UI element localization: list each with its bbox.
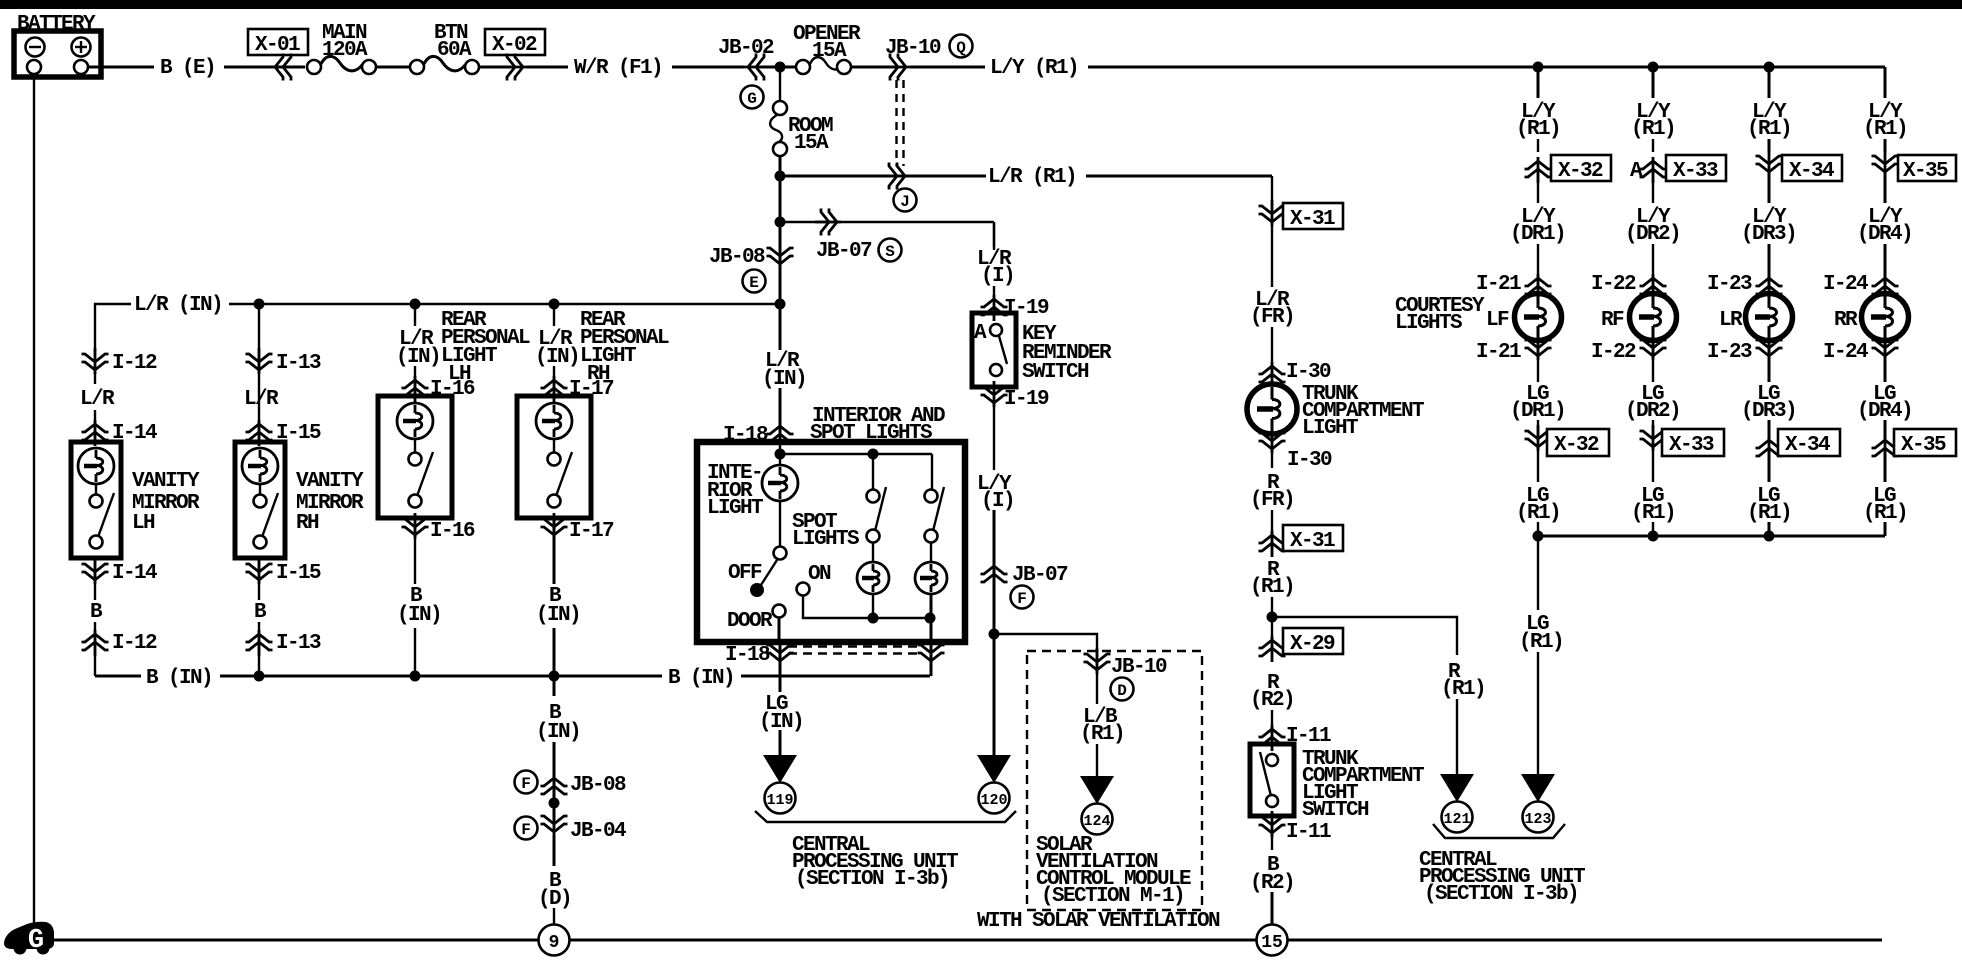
svg-text:F: F	[521, 821, 531, 839]
wire to solar module	[994, 634, 1097, 777]
svg-text:X-33: X-33	[1669, 434, 1714, 457]
svg-text:LIGHTS: LIGHTS	[792, 528, 859, 551]
vanity mirror LH branch	[80, 348, 157, 446]
wire R (R2)	[1250, 672, 1294, 744]
svg-text:LH: LH	[132, 512, 155, 535]
spot light 2	[915, 454, 947, 676]
svg-text:(R1): (R1)	[1080, 723, 1124, 746]
svg-text:RR: RR	[1834, 309, 1858, 332]
svg-text:X-29: X-29	[1290, 633, 1335, 656]
svg-text:X-32: X-32	[1554, 434, 1599, 457]
courtesy lights label	[1395, 295, 1485, 335]
rear personal RH lower chain	[536, 513, 614, 676]
svg-text:LF: LF	[1486, 309, 1509, 332]
wire to pin 120	[977, 634, 1011, 814]
svg-text:SWITCH: SWITCH	[1302, 799, 1369, 822]
svg-text:ON: ON	[808, 563, 831, 586]
connector I-30 upper	[1259, 361, 1332, 388]
svg-text:X-01: X-01	[255, 34, 300, 57]
svg-text:VANITY: VANITY	[296, 470, 364, 493]
vanity mirror RH	[235, 442, 364, 558]
node solar branch junction	[989, 629, 1000, 640]
svg-text:(I): (I)	[981, 265, 1014, 288]
wire B (IN) bus	[95, 667, 930, 690]
trunk compartment light	[1247, 383, 1424, 440]
svg-text:LIGHTS: LIGHTS	[1395, 312, 1462, 335]
svg-text:X-33: X-33	[1673, 160, 1718, 183]
svg-text:120: 120	[980, 792, 1007, 809]
svg-text:(D): (D)	[538, 888, 571, 911]
connector JB-02	[718, 37, 796, 81]
vanity LH lower chain	[82, 558, 158, 676]
battery	[14, 13, 101, 77]
courtesy light RF column	[1591, 101, 1726, 536]
svg-text:(SECTION I-3b): (SECTION I-3b)	[795, 868, 949, 891]
wire R (FR)	[1250, 472, 1294, 556]
courtesy light LR column	[1707, 101, 1842, 536]
node L/R(IN) junction RH vanity	[254, 299, 265, 310]
connector JB-10 D	[1084, 648, 1168, 701]
connector I-11 lower	[1259, 811, 1332, 850]
svg-text:D: D	[1117, 682, 1127, 700]
rear personal LH lower chain	[397, 513, 475, 676]
node L/R(IN) junction rear LH	[410, 299, 421, 310]
svg-text:(IN): (IN)	[762, 368, 806, 391]
svg-text:I-21: I-21	[1476, 273, 1521, 296]
svg-text:(DR1): (DR1)	[1510, 223, 1565, 246]
svg-text:(R2): (R2)	[1250, 689, 1294, 712]
fuse OPENER 15A	[793, 23, 894, 74]
wire LG (R1) to pin 123	[1519, 536, 1563, 833]
svg-text:I-24: I-24	[1823, 273, 1868, 296]
svg-text:VANITY: VANITY	[132, 470, 200, 493]
svg-text:15A: 15A	[794, 132, 829, 155]
connector I-30 lower	[1259, 427, 1333, 472]
svg-text:(DR3): (DR3)	[1741, 223, 1796, 246]
svg-text:SWITCH: SWITCH	[1022, 361, 1089, 384]
wire L/R (IN) label to interior box	[762, 304, 806, 442]
svg-text:(R1): (R1)	[1747, 502, 1791, 525]
connector X-29	[1259, 628, 1344, 662]
svg-text:60A: 60A	[437, 39, 472, 62]
svg-text:X-35: X-35	[1901, 434, 1946, 457]
svg-text:(FR): (FR)	[1250, 306, 1294, 329]
svg-text:X-34: X-34	[1789, 160, 1834, 183]
svg-text:I-23: I-23	[1707, 341, 1752, 364]
interior light switch OFF/ON/DOOR	[727, 501, 936, 642]
svg-text:JB-04: JB-04	[570, 820, 626, 843]
wire L/B (R1) to pin 124	[1080, 706, 1124, 835]
svg-text:I-30: I-30	[1286, 361, 1331, 384]
node ground 9	[539, 925, 570, 956]
svg-text:(DR2): (DR2)	[1625, 400, 1680, 423]
svg-text:I-30: I-30	[1287, 449, 1332, 472]
central processing unit text 2	[1419, 849, 1585, 906]
svg-text:I-16: I-16	[430, 520, 475, 543]
connector X-31 upper	[1259, 200, 1344, 287]
svg-text:(R1): (R1)	[1441, 678, 1485, 701]
spot light 1	[857, 454, 889, 618]
connector I-18 upper	[723, 422, 794, 448]
svg-text:121: 121	[1443, 811, 1470, 828]
svg-text:X-32: X-32	[1558, 160, 1603, 183]
svg-text:(R2): (R2)	[1250, 872, 1294, 895]
connector JB-08 E	[709, 222, 794, 304]
brace CPU 1	[755, 811, 1016, 822]
ground bus	[50, 939, 1882, 942]
fusible link BTN 60A	[410, 22, 479, 74]
svg-text:(FR): (FR)	[1250, 489, 1294, 512]
rear personal light RH branch	[535, 304, 669, 402]
svg-text:I-13: I-13	[276, 632, 321, 655]
svg-text:(DR2): (DR2)	[1625, 223, 1680, 246]
svg-text:X-31: X-31	[1290, 530, 1335, 553]
svg-text:L/R: L/R	[80, 388, 115, 411]
svg-text:G: G	[28, 926, 44, 956]
wire	[376, 66, 410, 69]
svg-text:I-13: I-13	[276, 352, 321, 375]
interior and spot lights unit	[697, 405, 965, 642]
ground symbol G (body ground car)	[4, 922, 54, 956]
svg-text:I-14: I-14	[112, 562, 157, 585]
svg-text:Q: Q	[956, 39, 966, 57]
interior light bulb	[707, 442, 932, 520]
courtesy light RR column	[1823, 101, 1956, 525]
svg-text:(R1): (R1)	[1631, 118, 1675, 141]
svg-text:JB-08: JB-08	[709, 246, 765, 269]
wire L/R (R1)	[780, 163, 1272, 212]
svg-text:JB-10: JB-10	[1111, 656, 1167, 679]
svg-text:OFF: OFF	[728, 562, 762, 585]
svg-text:(R1): (R1)	[1863, 118, 1907, 141]
wire B (R2)	[1250, 854, 1294, 925]
svg-text:WITH SOLAR VENTILATION: WITH SOLAR VENTILATION	[977, 910, 1220, 933]
svg-text:I-23: I-23	[1707, 273, 1752, 296]
connector JB-04 F	[515, 810, 627, 843]
svg-text:(R1): (R1)	[1250, 576, 1294, 599]
connector JB-08 F	[515, 771, 627, 801]
svg-text:(R1): (R1)	[1863, 502, 1907, 525]
svg-text:JB-07: JB-07	[1012, 564, 1068, 587]
connector JB-10 Q	[884, 35, 973, 167]
svg-text:L/R (R1): L/R (R1)	[988, 166, 1076, 189]
fusible link MAIN 120A	[307, 22, 376, 74]
vanity RH lower chain	[246, 558, 322, 676]
svg-text:X-31: X-31	[1290, 208, 1335, 231]
wire W/R (F1)	[527, 57, 744, 80]
svg-text:I-11: I-11	[1286, 821, 1331, 844]
svg-text:JB-02: JB-02	[718, 37, 774, 60]
svg-text:LIGHT: LIGHT	[707, 497, 763, 520]
wire LG (IN) to pin 119	[759, 693, 803, 814]
svg-text:RH: RH	[296, 512, 319, 535]
svg-text:I-12: I-12	[112, 352, 157, 375]
svg-text:(DR3): (DR3)	[1741, 400, 1796, 423]
svg-text:(R1): (R1)	[1631, 502, 1675, 525]
svg-text:L/R: L/R	[244, 388, 279, 411]
node L/R(IN) junction rear RH	[549, 299, 560, 310]
wire LG (R1) bus	[1533, 531, 1886, 542]
svg-text:X-34: X-34	[1785, 434, 1830, 457]
svg-text:(IN): (IN)	[535, 346, 579, 369]
wire L/R (IN) bus	[95, 294, 786, 352]
wire L/Y (R1) top bus	[910, 57, 1885, 80]
svg-text:I-22: I-22	[1591, 273, 1636, 296]
node X-29 junction	[1267, 612, 1278, 623]
wire trunk branch from L/R(R1)	[1271, 176, 1273, 206]
svg-text:(SECTION I-3b): (SECTION I-3b)	[1424, 883, 1578, 906]
vanity mirror RH branch	[244, 304, 321, 446]
svg-text:I-22: I-22	[1591, 341, 1636, 364]
wire B (D)	[538, 836, 571, 924]
connector X-01	[248, 29, 308, 81]
solar ventilation control module text	[1036, 834, 1191, 908]
svg-text:JB-10: JB-10	[885, 37, 941, 60]
svg-text:15: 15	[1261, 933, 1283, 953]
svg-text:L/Y (R1): L/Y (R1)	[990, 57, 1078, 80]
svg-text:B (E): B (E)	[160, 57, 215, 80]
svg-text:F: F	[1017, 590, 1027, 608]
svg-text:I-12: I-12	[112, 632, 157, 655]
connector JB-07 F	[981, 562, 1069, 609]
solar module dashed box	[1027, 651, 1202, 910]
svg-text:9: 9	[549, 933, 560, 953]
svg-text:(R1): (R1)	[1516, 502, 1560, 525]
vanity mirror LH	[71, 442, 200, 558]
courtesy light LF column	[1476, 101, 1611, 536]
svg-text:(SECTION M-1): (SECTION M-1)	[1041, 885, 1184, 908]
svg-text:120A: 120A	[322, 39, 368, 62]
connector I-18 lower pair	[725, 639, 945, 692]
svg-text:(IN): (IN)	[536, 604, 580, 627]
wire JB-07 S row	[775, 176, 995, 263]
trunk compartment light switch	[1250, 744, 1424, 822]
svg-text:(R1): (R1)	[1516, 118, 1560, 141]
central processing unit text	[792, 834, 958, 891]
svg-text:(DR4): (DR4)	[1857, 400, 1912, 423]
svg-text:I-21: I-21	[1476, 341, 1521, 364]
svg-text:X-35: X-35	[1903, 160, 1948, 183]
spot lights	[792, 511, 859, 551]
svg-text:(DR4): (DR4)	[1857, 223, 1912, 246]
svg-text:(R1): (R1)	[1519, 631, 1563, 654]
connector I-11 upper	[1259, 725, 1332, 751]
svg-text:S: S	[885, 243, 895, 261]
svg-text:119: 119	[766, 792, 793, 809]
svg-text:(IN): (IN)	[396, 346, 440, 369]
svg-text:(I): (I)	[981, 490, 1014, 513]
rear personal light LH branch	[396, 304, 530, 402]
courtesy lights feed branches	[1533, 62, 1886, 537]
svg-text:I-15: I-15	[276, 562, 321, 585]
svg-text:LR: LR	[1719, 309, 1743, 332]
key reminder branch wire L/R (I)	[977, 222, 1049, 321]
rear personal light LH	[378, 396, 452, 518]
svg-text:LIGHT: LIGHT	[1302, 417, 1358, 440]
wire battery negative to ground	[33, 74, 35, 924]
node fuse junction	[775, 62, 786, 73]
node JB junction	[549, 798, 560, 809]
wire L/Y (I)	[977, 473, 1014, 634]
svg-text:I-18: I-18	[725, 644, 770, 667]
connector X-31 lower	[1259, 525, 1344, 557]
svg-text:(IN): (IN)	[536, 721, 580, 744]
svg-text:I-24: I-24	[1823, 341, 1868, 364]
svg-text:B (IN): B (IN)	[668, 667, 734, 690]
svg-text:E: E	[749, 274, 759, 292]
connector I-19 lower	[981, 381, 1050, 470]
svg-text:L/R (IN): L/R (IN)	[134, 294, 222, 317]
svg-text:B (IN): B (IN)	[146, 667, 212, 690]
brace CPU 2	[1433, 824, 1565, 838]
fuse ROOM 15A	[741, 67, 834, 176]
svg-text:I-17: I-17	[569, 520, 614, 543]
svg-text:(DR1): (DR1)	[1510, 400, 1565, 423]
key reminder switch	[972, 313, 1112, 387]
wire B (IN) down chain	[536, 676, 580, 820]
svg-text:I-19: I-19	[1004, 388, 1049, 411]
svg-text:W/R (F1): W/R (F1)	[574, 57, 662, 80]
svg-text:F: F	[521, 775, 531, 793]
svg-text:RF: RF	[1601, 309, 1624, 332]
svg-text:J: J	[900, 193, 910, 211]
svg-text:124: 124	[1083, 813, 1110, 830]
svg-text:I-19: I-19	[1004, 297, 1049, 320]
wire B (E)	[88, 57, 305, 80]
wire R (R1)	[1250, 559, 1294, 642]
svg-text:123: 123	[1524, 811, 1551, 828]
wire L/R (FR)	[1250, 289, 1294, 383]
svg-text:(R1): (R1)	[1747, 118, 1791, 141]
svg-text:(IN): (IN)	[397, 604, 441, 627]
svg-text:DOOR: DOOR	[727, 610, 773, 633]
node ground 15	[1257, 925, 1288, 956]
svg-text:JB-07: JB-07	[816, 240, 872, 263]
connector X-02	[479, 29, 545, 81]
svg-text:G: G	[747, 90, 757, 108]
wire R (R1) branch to pin 121	[1272, 617, 1485, 833]
node room fuse junction	[775, 171, 786, 182]
rear personal light RH	[517, 396, 591, 518]
svg-text:JB-08: JB-08	[570, 774, 626, 797]
